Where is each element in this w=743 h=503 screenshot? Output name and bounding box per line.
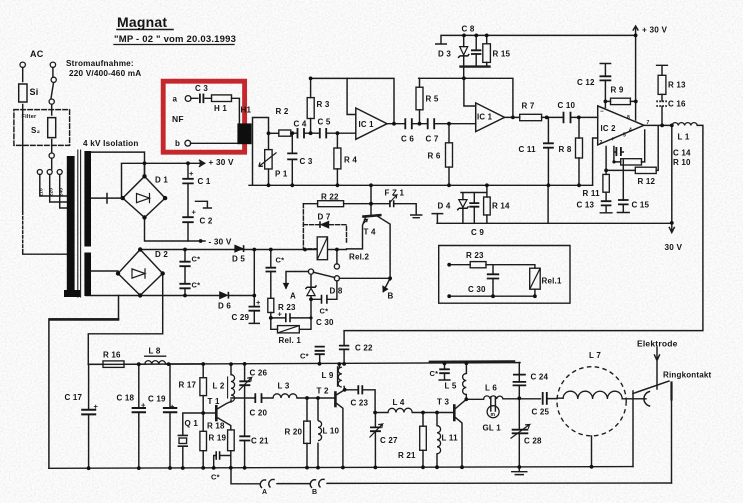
svg-text:L 5: L 5 [445, 382, 457, 391]
svg-text:A: A [290, 292, 296, 301]
svg-text:C 24: C 24 [531, 373, 549, 382]
svg-text:7: 7 [647, 120, 650, 126]
svg-text:C 17: C 17 [65, 393, 83, 402]
svg-text:T 3: T 3 [437, 398, 450, 407]
svg-text:+: + [192, 208, 197, 217]
svg-text:D 3: D 3 [438, 50, 451, 59]
svg-text:R 21: R 21 [398, 451, 416, 460]
svg-text:L 8: L 8 [149, 347, 161, 356]
svg-text:R 10: R 10 [673, 158, 691, 167]
svg-text:+: + [611, 137, 615, 143]
svg-text:L 11: L 11 [442, 434, 459, 443]
svg-text:R 8: R 8 [559, 145, 572, 154]
svg-text:R 22: R 22 [321, 193, 339, 202]
svg-text:C 11: C 11 [519, 145, 537, 154]
svg-text:R 6: R 6 [428, 152, 441, 161]
svg-text:C 23: C 23 [351, 399, 369, 408]
svg-text:R 12: R 12 [638, 177, 656, 186]
svg-text:8: 8 [627, 115, 630, 121]
svg-text:D 6: D 6 [218, 302, 231, 311]
svg-text:C 1: C 1 [198, 177, 211, 186]
svg-text:L 1: L 1 [678, 133, 690, 142]
svg-text:Rel. 1: Rel. 1 [279, 336, 302, 345]
svg-text:C*: C* [211, 473, 220, 482]
svg-text:5: 5 [623, 133, 626, 139]
svg-text:C*: C* [300, 352, 309, 361]
svg-text:C*: C* [192, 255, 201, 264]
svg-text:R 7: R 7 [522, 102, 535, 111]
svg-text:IC 2: IC 2 [601, 124, 617, 133]
svg-text:a: a [173, 95, 178, 104]
svg-text:B: B [312, 489, 317, 496]
svg-text:C 25: C 25 [532, 408, 550, 417]
svg-text:L 2: L 2 [213, 382, 225, 391]
svg-text:R 9: R 9 [611, 86, 624, 95]
svg-text:C*: C* [192, 281, 201, 290]
svg-text:C 29: C 29 [232, 313, 250, 322]
svg-text:D 5: D 5 [232, 255, 245, 264]
svg-text:b: b [175, 139, 180, 148]
svg-text:C 16: C 16 [668, 100, 686, 109]
svg-text:D 7: D 7 [318, 213, 331, 222]
svg-text:R 3: R 3 [317, 100, 330, 109]
svg-text:C 7: C 7 [426, 135, 439, 144]
svg-text:240: 240 [59, 188, 65, 197]
svg-text:R 2: R 2 [276, 107, 289, 116]
svg-text:Stromaufnahme:: Stromaufnahme: [66, 59, 134, 68]
svg-text:C 13: C 13 [577, 201, 595, 210]
svg-text:C 30: C 30 [316, 318, 334, 327]
svg-text:IC 1: IC 1 [359, 120, 375, 129]
svg-text:+ 30 V: + 30 V [209, 158, 234, 167]
svg-text:C 26: C 26 [250, 369, 268, 378]
svg-text:C*: C* [320, 307, 329, 316]
svg-text:GL 1: GL 1 [483, 424, 502, 433]
svg-text:R 23: R 23 [466, 251, 484, 260]
svg-text:R 17: R 17 [179, 381, 197, 390]
svg-text:R 20: R 20 [285, 428, 303, 437]
svg-text:D 1: D 1 [155, 176, 168, 185]
svg-text:4 kV Isolation: 4 kV Isolation [83, 139, 139, 148]
svg-text:C 28: C 28 [524, 437, 542, 446]
svg-text:R 19: R 19 [209, 434, 227, 443]
svg-text:C 30: C 30 [468, 285, 486, 294]
svg-text:+: + [94, 402, 99, 411]
svg-text:R 13: R 13 [668, 81, 686, 90]
svg-text:C 14: C 14 [673, 149, 691, 158]
svg-text:110: 110 [39, 188, 45, 196]
svg-text:T 1: T 1 [208, 397, 221, 406]
svg-text:L 9: L 9 [322, 371, 334, 380]
svg-text:"MP - 02 " vom 20.03.1993: "MP - 02 " vom 20.03.1993 [114, 34, 236, 45]
svg-text:H1: H1 [241, 106, 252, 115]
svg-text:R 5: R 5 [426, 95, 439, 104]
svg-text:H 1: H 1 [214, 104, 227, 113]
svg-text:C 4: C 4 [294, 120, 307, 129]
svg-text:IC 1: IC 1 [477, 113, 493, 122]
svg-text:C 21: C 21 [251, 437, 269, 446]
svg-text:C*: C* [430, 369, 439, 378]
svg-text:C 10: C 10 [558, 101, 576, 110]
svg-text:−: − [600, 109, 604, 115]
svg-text:D 4: D 4 [438, 202, 451, 211]
svg-text:+: + [141, 401, 146, 410]
svg-text:Rel.2: Rel.2 [349, 253, 369, 262]
svg-text:C 3: C 3 [300, 157, 313, 166]
svg-text:+ 30 V: + 30 V [642, 26, 667, 35]
svg-text:Rel.1: Rel.1 [542, 277, 562, 286]
svg-text:F Z 1: F Z 1 [385, 189, 405, 198]
svg-text:T 4: T 4 [364, 228, 377, 237]
svg-text:2: 2 [600, 140, 603, 146]
svg-text:R 14: R 14 [492, 202, 510, 211]
svg-text:L 3: L 3 [278, 382, 290, 391]
svg-text:C 2: C 2 [200, 217, 213, 226]
svg-text:R 16: R 16 [103, 351, 121, 360]
svg-text:NF: NF [172, 114, 184, 124]
svg-text:220 V/400-460 mA: 220 V/400-460 mA [69, 69, 141, 78]
svg-text:C 8: C 8 [462, 25, 475, 34]
svg-text:C 6: C 6 [401, 135, 414, 144]
svg-text:P 1: P 1 [275, 170, 288, 179]
svg-text:B: B [388, 292, 394, 301]
svg-text:R 4: R 4 [344, 156, 357, 165]
svg-text:R 11: R 11 [583, 189, 601, 198]
svg-text:R 18: R 18 [207, 422, 225, 431]
svg-text:A: A [262, 489, 267, 496]
svg-text:L 10: L 10 [323, 427, 340, 436]
svg-text:D 2: D 2 [155, 250, 168, 259]
svg-text:m: m [491, 412, 496, 418]
svg-text:C 22: C 22 [355, 344, 373, 353]
svg-text:C 19: C 19 [148, 395, 166, 404]
svg-text:L 4: L 4 [393, 398, 405, 407]
svg-text:+: + [170, 402, 175, 411]
svg-text:S₂: S₂ [31, 126, 41, 135]
svg-text:Ringkontakt: Ringkontakt [663, 371, 712, 380]
svg-text:C 3: C 3 [195, 84, 208, 93]
svg-text:Q 1: Q 1 [185, 419, 199, 428]
svg-text:C 12: C 12 [577, 78, 595, 87]
svg-text:C 5: C 5 [318, 118, 331, 127]
svg-text:C 20: C 20 [250, 409, 268, 418]
svg-text:C 27: C 27 [380, 436, 398, 445]
svg-text:C 18: C 18 [117, 394, 135, 403]
svg-text:C*: C* [276, 256, 285, 265]
svg-text:220: 220 [49, 188, 55, 197]
svg-text:L 6: L 6 [485, 384, 497, 393]
svg-text:C 9: C 9 [471, 228, 484, 237]
svg-text:Filter: Filter [22, 114, 37, 120]
svg-text:Magnat: Magnat [117, 14, 167, 30]
svg-text:R 15: R 15 [493, 50, 511, 59]
svg-text:Elektrode: Elektrode [637, 339, 678, 349]
svg-text:L 7: L 7 [589, 351, 601, 360]
svg-text:30 V: 30 V [665, 243, 683, 252]
svg-text:- 30 V: - 30 V [209, 238, 232, 247]
svg-text:+: + [256, 298, 261, 307]
svg-text:AC: AC [30, 49, 44, 59]
svg-text:Si: Si [30, 87, 39, 97]
svg-text:C 15: C 15 [632, 201, 650, 210]
svg-text:4: 4 [629, 128, 632, 134]
svg-text:D 8: D 8 [330, 287, 343, 296]
svg-text:+: + [189, 169, 194, 178]
svg-text:T 2: T 2 [317, 387, 330, 396]
svg-text:R 23: R 23 [278, 303, 296, 312]
